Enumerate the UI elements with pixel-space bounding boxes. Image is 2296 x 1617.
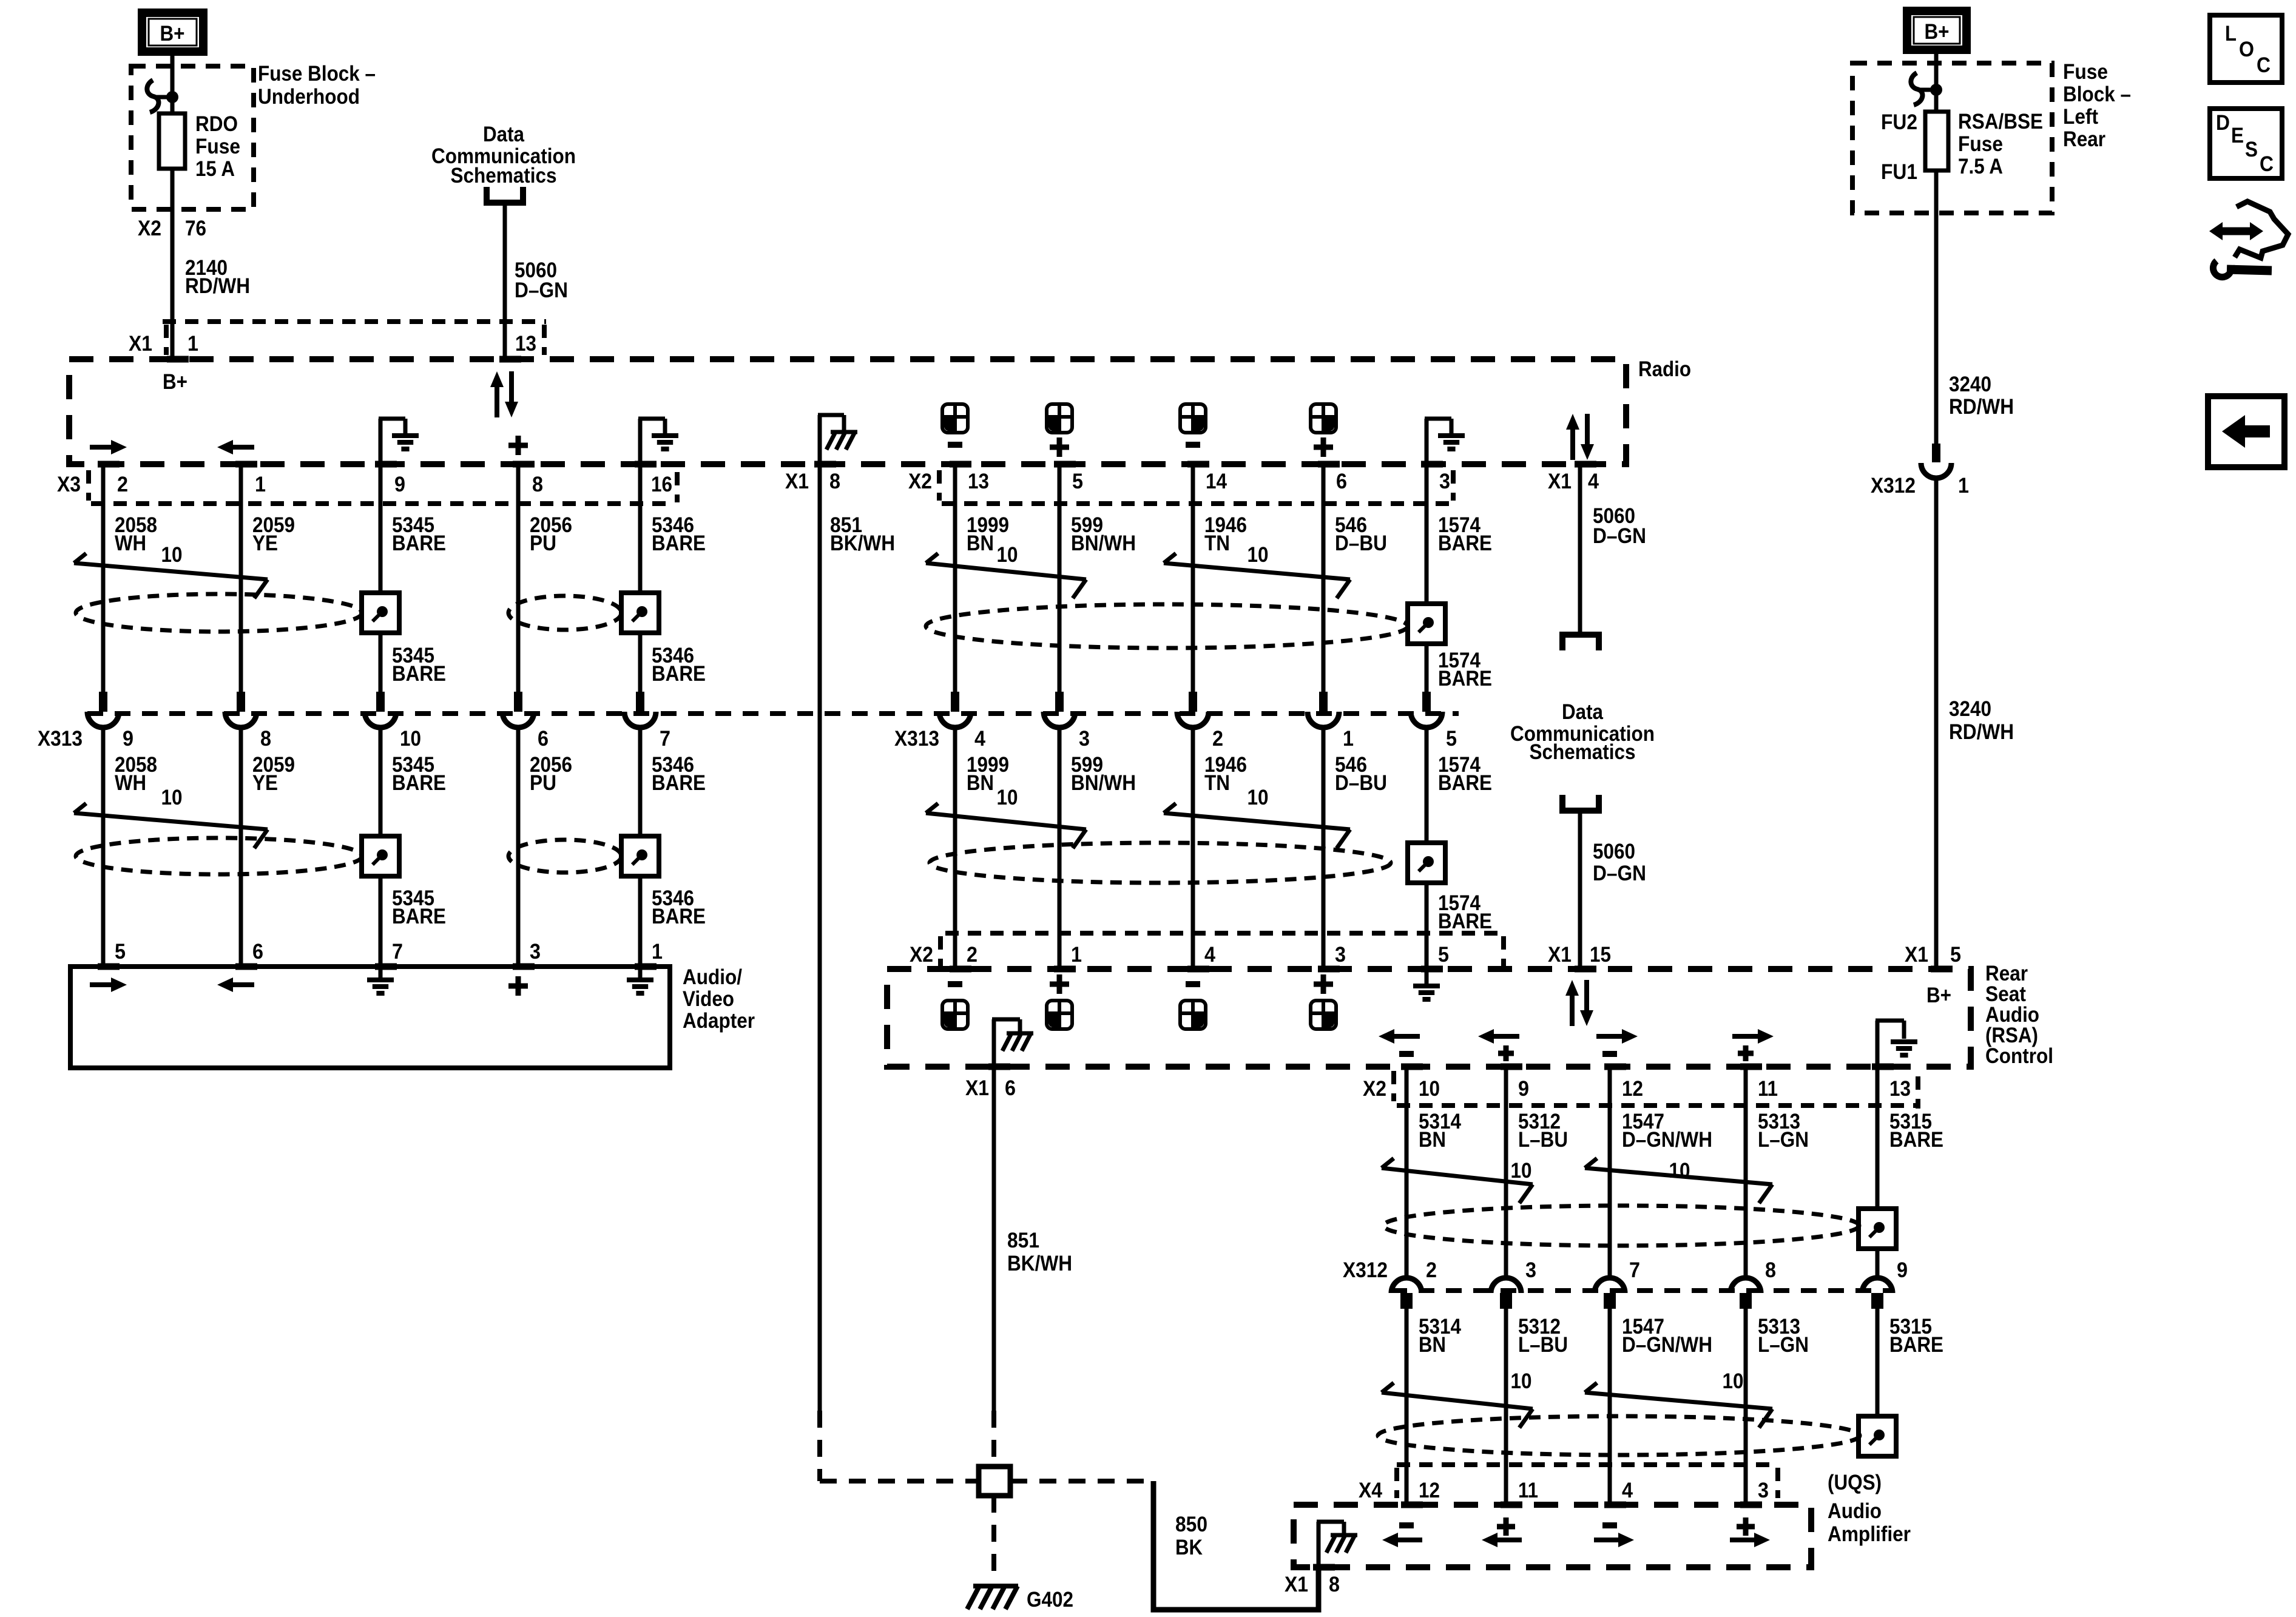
svg-text:6: 6 xyxy=(1005,1076,1016,1100)
svg-text:4: 4 xyxy=(1204,943,1215,967)
svg-text:10: 10 xyxy=(997,786,1018,809)
RSA X1-5 labels xyxy=(1931,966,1953,973)
svg-text:BN: BN xyxy=(1419,1333,1446,1357)
svg-text:Fuse: Fuse xyxy=(1958,132,2003,156)
diagnostic arrow-wrench icon xyxy=(2220,228,2253,235)
svg-text:D–BU: D–BU xyxy=(1335,771,1387,795)
wire 2059 YE seg1 xyxy=(239,464,243,692)
twist indicator rowB mid2 xyxy=(1164,803,1176,813)
radio pin X1-4 labels xyxy=(1575,461,1596,468)
svg-text:10: 10 xyxy=(1511,1369,1532,1393)
svg-text:X4: X4 xyxy=(1359,1479,1382,1502)
dashed wire splice to 850 xyxy=(1010,1479,1156,1484)
svg-text:3: 3 xyxy=(530,940,541,964)
radio speaker - (pin 13) xyxy=(942,404,968,433)
svg-text:Control: Control xyxy=(1985,1044,2053,1068)
svg-text:O: O xyxy=(2239,38,2254,61)
svg-text:7: 7 xyxy=(660,727,670,751)
wire 851 BK/WH vertical xyxy=(818,464,822,1411)
svg-text:9: 9 xyxy=(394,473,405,496)
svg-text:Schematics: Schematics xyxy=(451,164,557,187)
svg-text:11: 11 xyxy=(1758,1077,1778,1101)
twist indicator rowB mid1 xyxy=(926,803,938,813)
twist indicator rowA left xyxy=(74,553,86,563)
left wire seg2 #1 xyxy=(239,729,243,967)
svg-text:C: C xyxy=(2257,53,2271,77)
svg-text:B+: B+ xyxy=(160,22,185,46)
svg-text:B+: B+ xyxy=(1925,20,1950,44)
pin 8 (radio X3) xyxy=(513,461,535,468)
svg-text:PU: PU xyxy=(530,771,556,795)
wire 599 BN/WH seg1 xyxy=(1058,464,1062,692)
right wire seg1 #2 xyxy=(1608,1067,1612,1277)
pin 7 (adapter) xyxy=(375,964,397,970)
svg-text:B+: B+ xyxy=(1926,984,1951,1007)
svg-text:RD/WH: RD/WH xyxy=(1949,720,2014,744)
svg-text:4: 4 xyxy=(1588,470,1599,493)
RSA X1-15 labels xyxy=(1575,966,1596,973)
pin 9 (radio X3) xyxy=(375,461,397,468)
svg-text:6: 6 xyxy=(1336,470,1347,493)
svg-text:11: 11 xyxy=(1518,1479,1538,1502)
svg-text:8: 8 xyxy=(260,727,271,751)
pin 2 (radio X3) xyxy=(98,461,120,468)
svg-text:3: 3 xyxy=(1079,727,1090,751)
X313 connector pin 7 xyxy=(636,692,644,712)
svg-text:BN: BN xyxy=(967,771,994,795)
svg-text:BARE: BARE xyxy=(652,532,706,555)
left wire seg2 #0 xyxy=(101,729,106,967)
mid wire seg2 #0 xyxy=(953,729,957,969)
inline connector X313 dashed line xyxy=(87,711,1459,716)
shield 5315 upper xyxy=(1859,1209,1896,1249)
power terminal B+ (left) xyxy=(142,13,203,52)
svg-text:(UQS): (UQS) xyxy=(1828,1471,1882,1494)
pin 11 (RSA X2 bottom) xyxy=(1740,1064,1762,1070)
amp chassis ground (pin X1-8) xyxy=(1317,1522,1321,1567)
svg-text:Rear: Rear xyxy=(2063,127,2105,151)
connector band X3 (radio bottom left) xyxy=(91,501,674,506)
wire 851 BK/WH from RSA X1-6 xyxy=(992,1067,996,1411)
radio + symbol (pin 8) xyxy=(508,443,528,448)
RSA speaker + (pin 1) xyxy=(1050,982,1069,987)
ground G402 xyxy=(973,1584,1018,1588)
svg-text:X1: X1 xyxy=(1905,943,1928,967)
svg-text:BARE: BARE xyxy=(1438,667,1492,690)
UQS Audio Amplifier box xyxy=(1294,1505,1811,1567)
svg-text:BARE: BARE xyxy=(652,662,706,686)
pin 4 (RSA X2 top) xyxy=(1187,966,1209,973)
svg-text:L–GN: L–GN xyxy=(1758,1333,1809,1357)
svg-text:1: 1 xyxy=(1343,727,1354,751)
wire fuse to radio pin X1-1 xyxy=(171,169,175,359)
svg-text:X1: X1 xyxy=(785,470,809,493)
svg-text:RDO: RDO xyxy=(195,112,238,136)
pin 13 (RSA X2 bottom) xyxy=(1872,1064,1894,1070)
left wire seg2 #4 xyxy=(638,729,643,967)
pin 12 (amp X4) xyxy=(1401,1502,1423,1508)
mid wire seg2 #3 xyxy=(1322,729,1326,969)
svg-text:1: 1 xyxy=(652,940,663,964)
X312 connector pin 9 xyxy=(1862,1278,1893,1293)
bracket from radio pin X1-4 xyxy=(1562,635,1599,650)
wire 1946 TN seg1 xyxy=(1191,464,1195,692)
shield 5345 rowB xyxy=(362,836,399,876)
twist indicator rowD 1 xyxy=(1382,1383,1394,1393)
svg-text:X2: X2 xyxy=(908,470,932,493)
svg-text:Amplifier: Amplifier xyxy=(1828,1522,1911,1546)
svg-text:3240: 3240 xyxy=(1949,373,1991,396)
radio audio out arrow (pin 2) xyxy=(90,445,112,450)
svg-text:X312: X312 xyxy=(1871,474,1916,498)
svg-text:7.5 A: 7.5 A xyxy=(1958,155,2003,178)
svg-text:B+: B+ xyxy=(163,370,187,394)
amp X1-8 pin labels xyxy=(1313,1564,1335,1571)
pin 9 (RSA X2 bottom) xyxy=(1501,1064,1522,1070)
off-page bracket for 5060 xyxy=(487,187,523,203)
LOC legend box xyxy=(2210,15,2282,83)
twist indicator rowB left xyxy=(74,803,86,813)
right wire seg1 #1 xyxy=(1504,1067,1508,1277)
svg-text:Video: Video xyxy=(683,987,734,1011)
Audio/Video Adapter box xyxy=(70,967,670,1068)
pin 5 (RSA X2 top) xyxy=(1421,966,1443,973)
connector band X2 (RSA bottom) xyxy=(1397,1103,1918,1108)
svg-text:Audio: Audio xyxy=(1828,1499,1882,1523)
pin 2 (RSA X2 top) xyxy=(950,966,971,973)
data arrows at pin 13 xyxy=(495,386,499,417)
svg-text:10: 10 xyxy=(997,543,1018,567)
svg-text:BARE: BARE xyxy=(1438,771,1492,795)
svg-text:9: 9 xyxy=(123,727,133,751)
AV ground (pin 1) xyxy=(638,967,643,978)
radio speaker - (pin 14) xyxy=(1180,404,1206,433)
svg-text:WH: WH xyxy=(115,532,146,555)
wire B+ to fuse (right) xyxy=(1934,54,1939,112)
svg-text:8: 8 xyxy=(829,470,840,493)
svg-text:6: 6 xyxy=(252,940,263,964)
svg-text:L–GN: L–GN xyxy=(1758,1128,1809,1152)
RSA chassis ground (pin X1-6) xyxy=(992,1019,996,1067)
svg-text:BARE: BARE xyxy=(392,771,446,795)
pin 1 (adapter) xyxy=(635,964,657,970)
svg-text:12: 12 xyxy=(1622,1077,1643,1101)
twisted pair ellipse rowA left2 xyxy=(508,596,621,630)
svg-text:D–GN: D–GN xyxy=(1593,524,1646,548)
svg-text:BK/WH: BK/WH xyxy=(1007,1252,1072,1275)
svg-text:TN: TN xyxy=(1204,771,1230,795)
RSA arrows/signs pins 10 9 12 11 xyxy=(1393,1034,1420,1039)
svg-text:D–GN: D–GN xyxy=(1593,862,1646,885)
pin 3 (radio X2) xyxy=(1421,461,1443,468)
RSA speaker - (pin 4) xyxy=(1186,981,1200,987)
svg-text:13: 13 xyxy=(1889,1077,1911,1101)
svg-text:BK/WH: BK/WH xyxy=(830,532,895,555)
svg-text:BK: BK xyxy=(1175,1536,1203,1559)
Rear Seat Audio RSA Control box xyxy=(887,969,1971,1067)
svg-text:X1: X1 xyxy=(129,332,152,356)
svg-text:D–GN/WH: D–GN/WH xyxy=(1622,1333,1712,1357)
wire B+ to fuse xyxy=(171,56,175,113)
RSA speaker + (pin 3) xyxy=(1314,982,1333,987)
svg-text:X3: X3 xyxy=(57,473,81,496)
twisted pair ellipse rowA left1 xyxy=(76,594,362,632)
svg-text:2: 2 xyxy=(1426,1258,1437,1282)
fuse clip junction xyxy=(147,80,158,112)
svg-text:16: 16 xyxy=(651,473,672,496)
pin 3 (adapter) xyxy=(513,964,535,970)
wire 5060 to RSA xyxy=(1578,812,1582,969)
pin 13 (radio X2) xyxy=(950,461,971,468)
bracket to RSA pin X1-15 xyxy=(1562,795,1599,811)
svg-text:3: 3 xyxy=(1758,1479,1769,1502)
X313 connector pin 8 xyxy=(237,692,245,712)
radio ground symbol (pin 16) xyxy=(638,419,643,464)
twisted pair ellipse rowB left1 xyxy=(76,838,362,874)
svg-text:G402: G402 xyxy=(1027,1588,1073,1612)
X313 connector pin 5 xyxy=(1422,692,1431,712)
svg-text:Data: Data xyxy=(483,123,524,146)
radio speaker + (pin 5) xyxy=(1047,404,1072,433)
svg-text:PU: PU xyxy=(530,532,556,555)
svg-text:BARE: BARE xyxy=(652,771,706,795)
wire 5060 D-GN seg (radio to bracket) xyxy=(1578,464,1582,635)
RSA X1-6 pin labels xyxy=(988,1064,1010,1070)
X312 connector pin 2 xyxy=(1391,1278,1422,1293)
svg-text:5: 5 xyxy=(1438,943,1449,967)
wire 5345 BARE seg1 xyxy=(379,464,383,692)
twist indicator rowC 1 xyxy=(1382,1158,1394,1168)
svg-text:10: 10 xyxy=(161,786,183,809)
svg-text:4: 4 xyxy=(974,727,985,751)
svg-text:X2: X2 xyxy=(1363,1077,1386,1101)
wire 1574 BARE seg1 xyxy=(1425,464,1429,692)
svg-text:9: 9 xyxy=(1897,1258,1908,1282)
dashed wire splice to G402 xyxy=(991,1496,996,1582)
wire 2058 WH seg1 xyxy=(101,464,106,692)
svg-text:6: 6 xyxy=(538,727,549,751)
svg-text:L–BU: L–BU xyxy=(1518,1128,1568,1152)
shield 5346 rowB xyxy=(621,836,659,876)
svg-text:D–GN: D–GN xyxy=(515,279,568,302)
svg-text:Underhood: Underhood xyxy=(258,85,360,109)
svg-text:Audio/: Audio/ xyxy=(683,965,742,989)
fuse block left rear box xyxy=(1852,63,2052,213)
twist indicator rowC 2 xyxy=(1585,1158,1597,1168)
svg-text:7: 7 xyxy=(392,940,403,964)
svg-text:9: 9 xyxy=(1518,1077,1529,1101)
svg-text:3240: 3240 xyxy=(1949,697,1991,721)
radio ground symbol (pin 3) xyxy=(1425,419,1429,464)
pin 12 (RSA X2 bottom) xyxy=(1604,1064,1626,1070)
wire fuse to X312 (right) xyxy=(1934,170,1939,444)
radio audio return arrow (pin 1) xyxy=(232,445,254,450)
svg-text:X1: X1 xyxy=(965,1076,989,1100)
svg-text:BN: BN xyxy=(1419,1128,1446,1152)
right wire 5315 seg2 xyxy=(1876,1309,1880,1416)
right wire seg2 #0 xyxy=(1405,1309,1409,1505)
shield 5315 lower xyxy=(1859,1416,1896,1456)
svg-text:8: 8 xyxy=(532,473,543,496)
left wire seg2 #2 xyxy=(379,729,383,967)
svg-text:RD/WH: RD/WH xyxy=(185,274,250,298)
twisted pair ellipse rowB left2 xyxy=(508,840,621,873)
svg-text:10: 10 xyxy=(400,727,421,751)
shield 1574 rowA xyxy=(1408,604,1445,644)
connector band X2 (radio bottom middle) xyxy=(942,501,1453,506)
power terminal B+ (right) xyxy=(1907,11,1967,50)
svg-text:E: E xyxy=(2231,124,2244,147)
svg-text:RSA/BSE: RSA/BSE xyxy=(1958,110,2043,133)
fuse block underhood box xyxy=(131,66,254,209)
svg-text:2: 2 xyxy=(117,473,128,496)
svg-text:5: 5 xyxy=(1950,943,1961,967)
mid wire seg2 #2 xyxy=(1191,729,1195,969)
svg-text:L: L xyxy=(2225,22,2237,46)
svg-text:10: 10 xyxy=(1723,1369,1744,1393)
svg-text:851: 851 xyxy=(1007,1229,1039,1252)
svg-text:10: 10 xyxy=(1511,1159,1532,1183)
fuse RDO 15A xyxy=(159,113,185,169)
right wire seg2 #2 xyxy=(1608,1309,1612,1505)
svg-text:BN: BN xyxy=(967,532,994,555)
svg-text:10: 10 xyxy=(1419,1077,1440,1101)
wire 1999 BN seg1 xyxy=(953,464,957,692)
svg-text:13: 13 xyxy=(968,470,989,493)
amp signs/arrows pins 12 11 4 3 xyxy=(1399,1522,1414,1528)
svg-text:10: 10 xyxy=(1248,543,1269,567)
svg-text:D: D xyxy=(2216,111,2230,135)
inline connector X312 dashed line xyxy=(1391,1288,1893,1293)
svg-text:BARE: BARE xyxy=(1889,1333,1943,1357)
svg-text:S: S xyxy=(2245,138,2258,161)
svg-text:5: 5 xyxy=(115,940,126,964)
right wire seg1 #3 xyxy=(1744,1067,1748,1277)
svg-text:BN/WH: BN/WH xyxy=(1071,771,1136,795)
radio pin X1-8 labels xyxy=(814,461,836,468)
X313 connector pin 4 xyxy=(951,692,959,712)
svg-text:1: 1 xyxy=(1958,474,1969,498)
svg-text:Data: Data xyxy=(1562,700,1603,724)
wire 5060 D-GN to radio pin 13 xyxy=(503,203,507,359)
svg-text:X1: X1 xyxy=(1548,470,1572,493)
svg-text:X313: X313 xyxy=(38,727,83,751)
shield 1574 rowB xyxy=(1408,843,1445,883)
twist indicator rowD 2 xyxy=(1585,1383,1597,1393)
svg-text:5: 5 xyxy=(1072,470,1083,493)
svg-text:D–BU: D–BU xyxy=(1335,532,1387,555)
AV arrow out (pin 6) xyxy=(232,982,254,987)
svg-text:X2: X2 xyxy=(138,217,161,240)
twist indicator rowA mid1 xyxy=(926,553,938,563)
svg-text:X2: X2 xyxy=(910,943,933,967)
twisted pair ellipse rowD xyxy=(1378,1416,1860,1455)
AV + (pin 3) xyxy=(508,984,528,989)
svg-text:FU1: FU1 xyxy=(1881,160,1917,184)
svg-text:D–GN/WH: D–GN/WH xyxy=(1622,1128,1712,1152)
pin 3 (RSA X2 top) xyxy=(1318,966,1340,973)
svg-text:BARE: BARE xyxy=(1438,910,1492,933)
mid wire seg2 #1 xyxy=(1058,729,1062,969)
svg-text:Fuse: Fuse xyxy=(2063,60,2108,84)
svg-text:BARE: BARE xyxy=(652,905,706,928)
X312 connector pin 7 xyxy=(1595,1278,1625,1293)
pin 5 (radio X2) xyxy=(1054,461,1076,468)
svg-text:X312: X312 xyxy=(1343,1258,1388,1282)
RSA ground (pin 5) xyxy=(1425,969,1429,984)
svg-text:4: 4 xyxy=(1622,1479,1633,1502)
connector band X4 (amp top) xyxy=(1397,1462,1778,1467)
svg-text:Fuse Block –: Fuse Block – xyxy=(258,62,376,86)
svg-text:3: 3 xyxy=(1335,943,1346,967)
svg-text:15 A: 15 A xyxy=(195,157,235,181)
AV arrow in (pin 5) xyxy=(90,982,112,987)
wire 850 BK xyxy=(1153,1481,1319,1610)
svg-text:76: 76 xyxy=(185,217,206,240)
svg-text:5060: 5060 xyxy=(1593,840,1635,863)
svg-text:7: 7 xyxy=(1629,1258,1640,1282)
svg-text:1: 1 xyxy=(187,332,198,356)
svg-text:X1: X1 xyxy=(1285,1573,1308,1596)
twist indicator rowA mid2 xyxy=(1164,553,1176,563)
connector band X2 (RSA top) xyxy=(945,931,1504,936)
inline connector X312 pin 1 xyxy=(1932,444,1940,462)
svg-text:Left: Left xyxy=(2063,105,2098,129)
svg-text:YE: YE xyxy=(252,532,278,555)
pin 1 (radio X3) xyxy=(235,461,257,468)
twisted pair ellipse rowB mid xyxy=(930,843,1391,883)
svg-text:1: 1 xyxy=(1071,943,1082,967)
dashed wire radio 851 to splice xyxy=(820,1479,979,1484)
svg-text:FU2: FU2 xyxy=(1881,110,1917,134)
RSA speaker - (pin 2) xyxy=(948,981,962,987)
pin 11 (amp X4) xyxy=(1501,1502,1522,1508)
pin 10 (RSA X2 bottom) xyxy=(1401,1064,1423,1070)
svg-text:BARE: BARE xyxy=(1438,532,1492,555)
svg-text:X1: X1 xyxy=(1548,943,1572,967)
svg-text:X313: X313 xyxy=(894,727,939,751)
svg-text:Fuse: Fuse xyxy=(195,135,240,158)
svg-text:12: 12 xyxy=(1419,1479,1440,1502)
svg-text:Radio: Radio xyxy=(1638,357,1691,381)
svg-text:BARE: BARE xyxy=(392,532,446,555)
pin 5 (adapter) xyxy=(98,964,120,970)
svg-text:14: 14 xyxy=(1206,470,1227,493)
splice junction xyxy=(979,1467,1010,1496)
pin 14 (radio X2) xyxy=(1187,461,1209,468)
svg-text:5: 5 xyxy=(1446,727,1457,751)
pin 4 (amp X4) xyxy=(1604,1502,1626,1508)
svg-text:8: 8 xyxy=(1329,1573,1340,1596)
svg-text:BN/WH: BN/WH xyxy=(1071,532,1136,555)
twisted pair ellipse rowC xyxy=(1383,1206,1859,1246)
X313 connector pin 1 xyxy=(1319,692,1328,712)
radio ground symbol (pin 9) xyxy=(379,419,383,464)
svg-text:Schematics: Schematics xyxy=(1530,740,1636,764)
X313 connector pin 6 xyxy=(514,692,522,712)
radio speaker + (pin 6) xyxy=(1311,404,1336,433)
fuse RSA/BSE 7.5A xyxy=(1925,112,1948,170)
svg-text:WH: WH xyxy=(115,771,146,795)
svg-text:1: 1 xyxy=(255,473,266,496)
right wire 5315 seg1 xyxy=(1876,1067,1880,1209)
svg-text:10: 10 xyxy=(1248,786,1269,809)
svg-text:L–BU: L–BU xyxy=(1518,1333,1568,1357)
fuse clip junction (right) xyxy=(1911,73,1922,105)
svg-text:3: 3 xyxy=(1525,1258,1536,1282)
right wire seg2 #1 xyxy=(1504,1309,1508,1505)
RSA ground hook (pin 13) xyxy=(1876,1021,1880,1067)
